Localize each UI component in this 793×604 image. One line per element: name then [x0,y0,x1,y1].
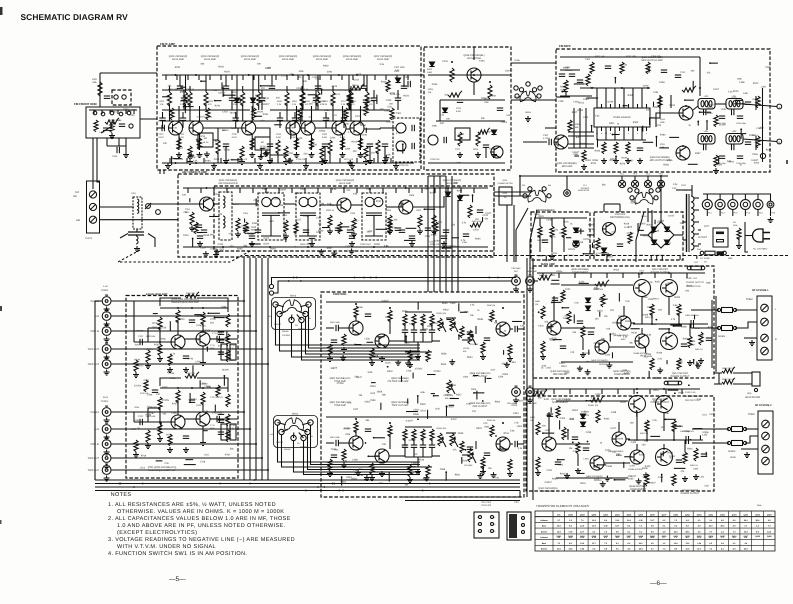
wire stub [655,137,657,147]
wire [568,147,594,149]
ground [698,358,704,364]
junction [621,87,623,89]
capacitor [303,230,309,232]
resistor R317 [714,155,718,167]
svg-text:Q207: Q207 [662,513,667,516]
svg-text:C506: C506 [407,365,413,368]
svg-text:AM: AM [548,184,551,187]
wire [519,176,521,192]
svg-text:R410: R410 [678,392,684,395]
svg-text:OUTLET: OUTLET [698,236,708,239]
switch pin [289,317,294,322]
jack PRE AMP OUT [512,386,521,396]
svg-text:R229: R229 [473,148,479,151]
resistor RR427 [672,474,676,486]
wire [351,204,362,206]
wire [715,103,726,105]
screw SP2-2 [762,432,770,440]
trimmer C102 [122,95,126,99]
svg-text:C402: C402 [595,393,601,396]
wire [350,86,352,92]
svg-text:D250: D250 [386,121,392,124]
svg-text:(EXCEPT ELECTROLYTICS): (EXCEPT ELECTROLYTICS) [117,530,197,536]
junction [236,120,238,122]
switch pin [306,302,311,307]
coil T301b [396,141,406,151]
wire main in [529,262,531,275]
svg-text:R431 10: R431 10 [690,464,698,467]
svg-text:L542: L542 [370,392,376,395]
svg-text:HEAD PHONE: HEAD PHONE [745,396,761,399]
wire stub [237,158,239,163]
svg-text:R359: R359 [578,109,584,112]
resistor R507 [370,348,374,360]
svg-text:VOLTAGE: VOLTAGE [615,213,626,216]
wire [256,128,270,137]
svg-text:47/25V: 47/25V [294,192,302,195]
wire [405,311,432,313]
junction [307,74,309,76]
wire stub [342,226,349,228]
wire [714,383,722,385]
svg-text:D314: D314 [754,162,760,165]
switch wire loop [272,298,316,330]
svg-text:R727: R727 [172,402,178,405]
wire [332,104,334,121]
svg-text:R436: R436 [631,332,637,335]
resistor [756,96,760,108]
wire stub [606,273,608,278]
wire [279,120,281,128]
wire [684,440,686,452]
wire AM antenna [99,206,134,208]
svg-text:TE101: TE101 [85,237,93,240]
svg-text:FM IF AMP: FM IF AMP [172,58,184,61]
svg-text:R217 470: R217 470 [344,158,354,161]
svg-text:10/16V: 10/16V [505,69,513,72]
svg-text:TE901: TE901 [101,400,109,403]
svg-text:L523: L523 [518,400,524,403]
pin 2 [641,127,643,131]
svg-text:24.0: 24.0 [674,530,678,533]
wire stub [304,188,306,193]
coil T302 [428,135,438,145]
diode D205 [491,130,496,135]
junction [397,150,399,152]
wire stub [246,232,255,234]
resistor R505 [354,421,358,433]
ground [358,152,364,158]
wire [414,74,424,76]
ground [407,362,413,368]
wire switch fan [276,307,421,345]
capacitor [223,86,229,88]
svg-text:L546: L546 [406,369,412,372]
svg-text:C270: C270 [473,228,479,231]
resistor [328,215,332,228]
junction [191,307,193,309]
lamp PL3 [631,180,638,187]
coil L103 [110,111,114,115]
ground [133,372,139,378]
wire stub [686,273,688,278]
wire stub [300,116,302,124]
svg-text:R719: R719 [141,455,147,458]
junction [660,175,662,177]
wire [517,443,524,445]
svg-text:10.6: 10.6 [686,548,690,551]
svg-text:C260 0.047: C260 0.047 [360,243,372,246]
wire stub [434,188,436,193]
junction [323,486,325,488]
wire [640,234,648,236]
wire switch fan [309,307,421,348]
wire [534,217,587,219]
svg-text:R211: R211 [160,100,166,103]
svg-text:L559: L559 [378,482,384,485]
ground [363,159,369,165]
ground [167,447,173,453]
junction [307,246,309,248]
wire [735,309,757,311]
wire [177,321,179,335]
junction [646,439,648,441]
svg-text:C702: C702 [138,335,144,338]
wire [405,426,432,428]
svg-text:0.0047: 0.0047 [197,115,205,118]
wire [349,100,351,110]
wire stub [220,158,222,163]
capacitor C503 [365,314,371,316]
diode [664,240,669,245]
svg-text:R360: R360 [660,134,666,137]
svg-text:Q202: Q202 [580,513,585,516]
svg-text:SCHEMATIC DIAGRAM RV: SCHEMATIC DIAGRAM RV [21,12,129,22]
svg-text:12.7: 12.7 [592,542,596,545]
capacitor [547,414,553,416]
wire B+ vertical [762,88,764,162]
junction [709,62,711,64]
svg-text:SP0802: SP0802 [728,450,736,453]
svg-text:L308: L308 [739,81,745,84]
junction [249,428,251,430]
wire [202,426,204,440]
wire stub [460,188,462,193]
resistor R511 [460,441,464,453]
AM IF inner box [214,186,494,251]
resistor [388,222,392,234]
scan mark [786,160,788,164]
junction [296,277,298,279]
svg-text:TUNING METER: TUNING METER [497,182,513,185]
wire stub [614,78,616,84]
svg-text:INDICATOR: INDICATOR [578,189,590,192]
svg-text:Q206: Q206 [650,513,655,516]
wire [510,328,513,330]
junction [502,422,504,424]
wire AM antenna 2 [99,219,178,221]
svg-text:R252: R252 [218,65,224,68]
capacitor [583,448,589,450]
resistor R503 [342,449,346,461]
pin 8 [614,127,616,131]
wire [732,210,734,217]
resistor RR407 [562,427,566,440]
resistor [338,222,342,234]
svg-text:SP SYSTEM-1: SP SYSTEM-1 [752,289,769,292]
wire stub [482,217,484,221]
wire [706,210,708,217]
wire [125,138,127,152]
ground [104,476,110,482]
svg-text:C401: C401 [538,325,544,328]
svg-text:L235: L235 [721,108,727,111]
svg-text:0.01: 0.01 [491,369,496,372]
tone resistor [430,429,434,441]
pin top [637,104,639,108]
svg-text:C457: C457 [630,464,636,467]
wire antenna feed [92,138,94,189]
pin top [641,104,643,108]
svg-text:TAPE OUT: TAPE OUT [88,457,100,460]
svg-text:SW1b: SW1b [290,295,297,298]
junction [656,136,658,138]
wire [446,432,456,434]
wire stub [512,320,522,322]
svg-text:C428: C428 [611,411,617,414]
wire stub [585,389,587,394]
svg-text:C264: C264 [214,193,220,196]
svg-text:R420: R420 [621,401,627,404]
wire [676,189,692,191]
resistor R102 [94,120,98,132]
ground [104,418,110,424]
wire [668,328,670,334]
svg-text:R224: R224 [591,162,597,165]
svg-text:D301: D301 [450,245,456,248]
wire [473,47,475,60]
bus wire [532,258,534,500]
svg-text:PRE DRIVER: PRE DRIVER [541,490,555,493]
junction [252,109,254,111]
wire stub [184,106,194,108]
wire base [351,120,354,122]
svg-text:L251: L251 [131,192,137,195]
svg-text:C208: C208 [659,81,665,84]
capacitor [559,74,565,76]
wire [231,100,233,110]
wire stub [93,110,95,114]
resistor R305 [582,150,586,162]
capacitor C265 [463,234,469,236]
svg-text:12.6: 12.6 [767,530,771,533]
wire stub [355,344,361,346]
wire [551,218,553,226]
svg-text:C207: C207 [386,219,392,222]
wire stub [447,319,452,321]
svg-text:R508: R508 [477,318,483,321]
wire stub [231,159,242,161]
wire [539,236,541,252]
wire [185,75,187,92]
wire stub [200,188,202,193]
transistor Q253 [399,200,413,214]
capacitor C311 [675,75,681,77]
wire [95,300,102,302]
wire [683,239,687,241]
wire stub [288,158,290,163]
resistor [216,140,220,154]
wire [604,203,620,205]
capacitor [569,74,575,76]
svg-text:D442: D442 [694,327,700,330]
junction [288,280,290,282]
resistor R702 [134,440,138,452]
wire collector [360,106,362,122]
svg-text:47/25V: 47/25V [337,382,345,385]
wire [744,337,757,339]
wire [619,204,621,212]
resistor [390,108,394,120]
capacitor [484,453,490,455]
wire [689,324,691,336]
capacitor C226 [444,137,446,143]
svg-text:100k: 100k [367,371,373,374]
resistor R229 [476,132,480,146]
svg-text:C560: C560 [352,459,358,462]
wire [231,90,233,98]
wire jack feed R [111,443,256,445]
screw SP1-2 [761,318,769,326]
rotary switch SM1b [523,187,551,202]
resistor R313 [682,86,696,92]
switch pin [277,311,282,316]
wire mpx top rail [560,56,700,58]
resistor R321 [602,142,606,154]
tone resistor [412,314,416,326]
svg-text:C409 1000/16V: C409 1000/16V [685,314,700,317]
wire [510,443,513,445]
wire stub [633,389,635,394]
capacitor [177,86,183,88]
svg-text:R212: R212 [215,140,221,143]
resistor [576,442,580,454]
svg-text:R254: R254 [308,242,314,245]
resistor [562,226,566,238]
svg-text:D530: D530 [458,432,464,435]
wire stub [376,228,388,230]
junction [423,208,425,210]
svg-text:8.6: 8.6 [604,519,607,522]
wire dial fan [516,208,528,262]
junction [300,115,302,117]
junction [488,277,490,279]
variable capacitor VC1 [101,126,112,133]
junction [445,471,447,473]
trimmer VT251 [146,204,151,209]
wire [440,99,505,101]
pin top [605,104,607,108]
svg-text:MAIN AMP: MAIN AMP [541,262,555,266]
terminal A [777,104,782,109]
resistor R228 [458,132,462,146]
svg-text:C145: C145 [129,114,135,117]
lamp PL2 [618,180,625,187]
wire stub [545,256,547,262]
svg-text:1000p: 1000p [251,229,258,232]
ground [104,337,110,343]
svg-text:C765: C765 [195,360,201,363]
bus wire MPX down [427,176,429,292]
wire [641,297,643,315]
wire [744,210,746,217]
svg-text:LP902: LP902 [752,98,759,101]
capacitor C511 [467,332,473,334]
svg-text:C242: C242 [276,133,282,136]
wire stub [395,188,397,193]
svg-text:0.01: 0.01 [570,417,575,420]
wire tap [694,245,699,247]
wire [757,194,759,200]
wire stub [569,389,571,394]
svg-text:Q704: Q704 [196,404,202,407]
resistor R505 [354,306,358,318]
svg-text:0.047: 0.047 [668,214,674,217]
lamp PL6 [767,201,774,208]
junction [433,395,435,397]
svg-text:R421 0.5: R421 0.5 [640,432,649,435]
ground [527,287,533,293]
capacitor C254 [323,118,329,120]
svg-text:R226: R226 [204,198,210,201]
svg-text:R270: R270 [224,70,230,73]
wire stub [317,188,319,193]
wire collector [296,106,298,122]
svg-text:Q701 (Q703 2SC458L(GC)): Q701 (Q703 2SC458L(GC)) [148,466,177,469]
wire stub [590,273,592,278]
svg-text:Q505 2SC458L(GC): Q505 2SC458L(GC) [470,402,491,405]
junction [422,490,424,492]
svg-text:10k: 10k [530,419,533,422]
ground [165,163,171,169]
filter box muting [455,128,470,140]
wire stub [162,96,170,98]
FM MUTING section box [424,47,511,170]
svg-text:C552: C552 [450,302,456,305]
wire switch fan R [294,441,421,473]
svg-text:Collector: Collector [540,519,548,522]
ground [441,241,447,247]
ground [327,471,333,477]
wire stub [458,335,460,340]
wire [719,194,721,200]
svg-text:C213 20: C213 20 [332,93,341,96]
svg-text:R260: R260 [205,160,211,163]
capacitor [745,142,751,144]
junction [447,187,449,189]
resistor [364,146,368,159]
capacitor [331,340,337,342]
wire [214,203,220,205]
svg-text:L259: L259 [558,100,564,103]
resistor R303 [568,120,572,132]
wire [338,327,349,329]
headphone jack J901 [752,372,760,386]
svg-text:L210: L210 [222,111,228,114]
svg-text:PRE OUTPUT: PRE OUTPUT [473,405,488,408]
rotary switch SM1a [515,88,541,102]
wire tap [694,209,699,211]
